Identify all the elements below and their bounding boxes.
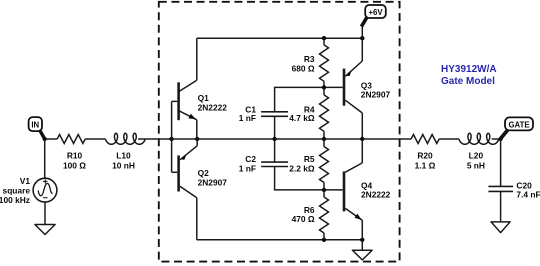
wire base line lower <box>275 167 343 190</box>
node IN label box <box>29 117 45 139</box>
ground inside box <box>352 250 372 260</box>
wire R10 to L10 <box>85 138 105 140</box>
inductor L20 (5 nH) <box>459 133 499 170</box>
wire bottom rail <box>197 239 362 241</box>
resistor R10 (100 Ω) <box>57 135 86 171</box>
svg-text:HY3912W/A: HY3912W/A <box>441 64 497 75</box>
resistor R4 (4.7 kΩ) <box>289 87 328 139</box>
source V1 (square 100 kHz) <box>0 176 57 205</box>
resistor R6 (470 Ω) <box>292 190 329 240</box>
ground below V1 <box>35 225 55 235</box>
svg-text:4.7 kΩ: 4.7 kΩ <box>289 113 315 123</box>
node R3-R4 junction <box>322 85 326 89</box>
wire IN node to V1 <box>44 139 46 178</box>
svg-text:GATE: GATE <box>508 120 529 129</box>
svg-text:Q1: Q1 <box>198 93 210 103</box>
node R5-R6 junction <box>322 188 326 192</box>
node GATE label box <box>501 117 533 138</box>
wire top rail <box>197 37 362 39</box>
transistor Q3 (2N2907 PNP) <box>344 61 390 113</box>
capacitor C20 (7.4 nF) <box>488 181 540 200</box>
svg-text:2N2222: 2N2222 <box>198 103 228 113</box>
svg-text:10 nH: 10 nH <box>112 160 135 170</box>
svg-text:R10: R10 <box>67 150 83 160</box>
svg-text:5 nH: 5 nH <box>467 160 485 170</box>
node +6V rail junction <box>360 36 364 40</box>
transistor Q4 (2N2222 NPN) <box>344 163 391 220</box>
resistor R3 (680 Ω) <box>292 38 329 87</box>
node IN junction <box>43 137 47 141</box>
wire IN to R10 <box>45 138 58 140</box>
svg-text:470 Ω: 470 Ω <box>292 214 315 224</box>
node emitters junction <box>195 137 199 141</box>
wire Q4 emitter down <box>361 220 363 240</box>
wire L10 to base node <box>138 138 172 140</box>
wire base link vertical <box>171 101 173 172</box>
dashed model boundary box <box>159 2 400 262</box>
node C1 bottom junction <box>272 137 276 141</box>
wire Q4 collector up <box>361 139 363 163</box>
svg-text:2N2907: 2N2907 <box>361 90 391 100</box>
svg-text:2.2 kΩ: 2.2 kΩ <box>289 163 315 173</box>
resistor R5 (2.2 kΩ) <box>289 139 328 190</box>
wire Q2 emitter up <box>196 139 198 146</box>
svg-text:Gate Model: Gate Model <box>441 76 495 87</box>
wire Q2 collector down <box>196 198 198 240</box>
wire Q1 emitter down <box>196 120 198 139</box>
node R4 bottom junction <box>322 137 326 141</box>
node R6 bottom junction <box>322 238 326 242</box>
node R3 top junction <box>322 36 326 40</box>
node ground rail junction <box>360 238 364 242</box>
svg-text:2N2907: 2N2907 <box>198 178 228 188</box>
title HY3912W/A Gate Model <box>441 64 497 87</box>
wire R20 to L20 <box>439 138 459 140</box>
svg-text:100 Ω: 100 Ω <box>63 160 86 170</box>
svg-text:680 Ω: 680 Ω <box>292 63 315 73</box>
transistor Q2 (2N2907 PNP) <box>172 146 228 198</box>
svg-text:100 kHz: 100 kHz <box>0 195 30 205</box>
svg-text:square: square <box>3 185 31 195</box>
svg-text:+6V: +6V <box>368 8 383 17</box>
wire Q3 collector down <box>361 113 363 139</box>
power +6V label <box>361 5 385 38</box>
wire Q3 emitter up <box>361 38 363 61</box>
wire Q1 collector up <box>196 38 198 80</box>
svg-text:R3: R3 <box>304 54 315 64</box>
inductor L10 (10 nH) <box>105 133 145 170</box>
svg-text:2N2222: 2N2222 <box>361 190 391 200</box>
svg-text:1.1 Ω: 1.1 Ω <box>415 160 436 170</box>
svg-text:Q2: Q2 <box>198 168 210 178</box>
capacitor C2 (1 nF) <box>239 139 288 173</box>
node base link junction <box>169 137 173 141</box>
resistor R20 (1.1 Ω) <box>411 135 439 171</box>
svg-text:L20: L20 <box>469 150 484 160</box>
capacitor C1 (1 nF) <box>239 104 288 139</box>
wire ground stub <box>361 240 363 250</box>
svg-text:R20: R20 <box>417 150 433 160</box>
wire C20 to ground <box>500 191 502 222</box>
svg-text:1 nF: 1 nF <box>239 163 256 173</box>
node collectors junction <box>360 137 364 141</box>
node GATE junction <box>498 137 502 141</box>
wire GATE to C20 <box>500 139 502 186</box>
wire base line upper <box>275 87 343 111</box>
wire mid bus <box>172 138 363 140</box>
wire V1 to ground <box>44 202 46 225</box>
svg-text:IN: IN <box>31 121 39 130</box>
svg-text:1 nF: 1 nF <box>239 113 256 123</box>
transistor Q1 (2N2222 NPN) <box>172 80 228 120</box>
svg-text:7.4 nF: 7.4 nF <box>516 190 540 200</box>
wire L20 to GATE node <box>492 138 501 140</box>
ground below C20 <box>491 222 510 233</box>
svg-text:L10: L10 <box>116 150 131 160</box>
wire to R20 <box>362 138 411 140</box>
svg-text:V1: V1 <box>20 176 31 186</box>
